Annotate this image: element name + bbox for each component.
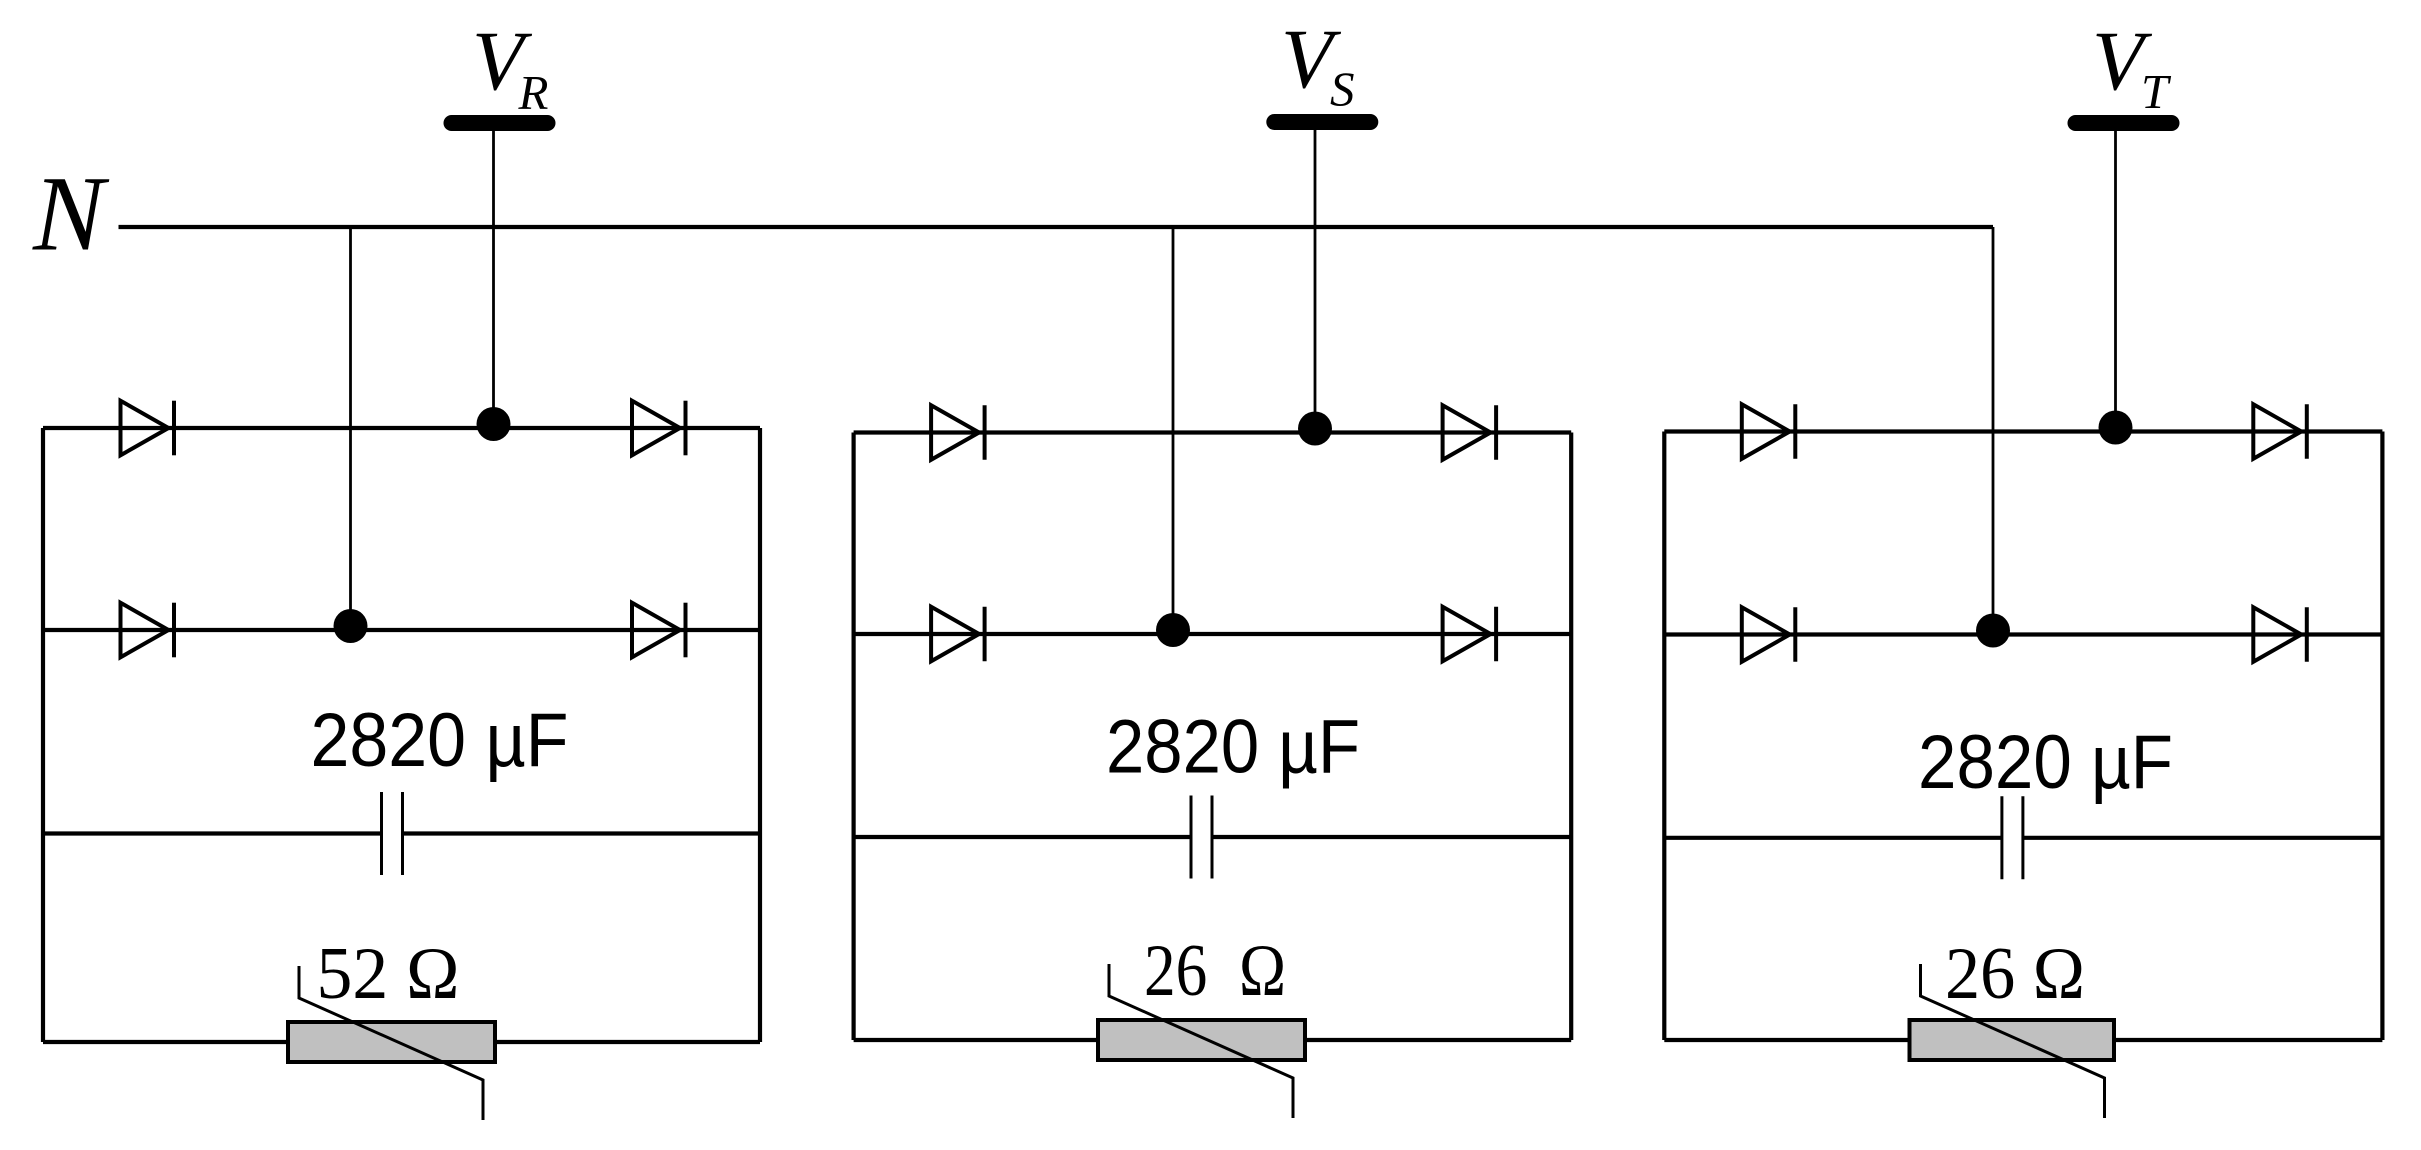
svg-text:2820 µF: 2820 µF	[311, 698, 569, 783]
svg-text:R: R	[518, 65, 549, 120]
svg-text:26 Ω: 26 Ω	[1945, 933, 2085, 1015]
svg-text:2820 µF: 2820 µF	[1106, 705, 1360, 790]
svg-text:26 Ω: 26 Ω	[1144, 930, 1286, 1012]
svg-text:T: T	[2141, 64, 2172, 119]
svg-text:52 Ω: 52 Ω	[317, 933, 460, 1015]
svg-text:S: S	[1330, 62, 1355, 117]
svg-text:N: N	[32, 156, 110, 274]
svg-text:2820 µF: 2820 µF	[1918, 720, 2173, 805]
